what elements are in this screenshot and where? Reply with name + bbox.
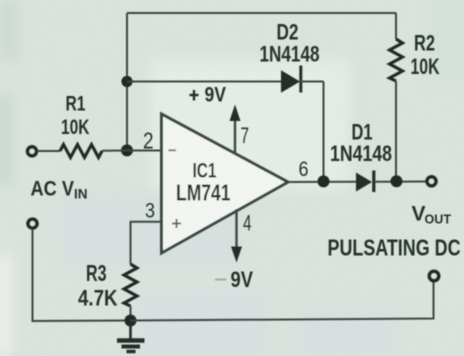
label +9V [190, 90, 199, 101]
wire: top feedback rail [127, 12, 396, 14]
diode D1 [356, 171, 427, 193]
ground [117, 326, 145, 352]
pin 4 supply arrow [231, 209, 242, 263]
node: ground rail junction [125, 315, 137, 327]
terminal: output upper [427, 177, 436, 186]
wire: node to pin 2 [127, 150, 162, 152]
wire: pin 3 to R3 [131, 222, 162, 264]
label plus input [172, 219, 181, 228]
node: output/R2 junction [391, 175, 403, 187]
wire: ground rail to output terminal [131, 281, 434, 321]
label -9V [215, 267, 253, 292]
resistor R1 [60, 145, 102, 158]
resistor R2 [390, 13, 403, 182]
terminal: AC input upper [27, 147, 36, 156]
terminal: AC input lower [28, 219, 37, 228]
wire: D2 output down to op-amp output node [323, 82, 325, 182]
wire: left vertical from top rail to inverting input [126, 13, 128, 151]
wire: lower input down to ground rail [33, 229, 131, 322]
label minus input [169, 149, 177, 151]
wire: R3 to ground rail [130, 306, 132, 321]
node: junction of D2 branch on left vertical [121, 76, 132, 87]
wire: op-amp output [288, 181, 356, 183]
node: output/D2 junction [318, 175, 330, 187]
op-amp U1 triangle [162, 114, 289, 253]
wire: input to R1 [37, 150, 60, 152]
terminal: output lower [429, 271, 439, 281]
pin 7 supply arrow [230, 105, 241, 154]
diode D2 [281, 66, 324, 93]
resistor R3 [124, 264, 137, 306]
wire: D2 branch horizontal [127, 81, 281, 83]
wire: R1 to inverting node [102, 150, 127, 152]
node: junction at inverting input [121, 144, 133, 156]
